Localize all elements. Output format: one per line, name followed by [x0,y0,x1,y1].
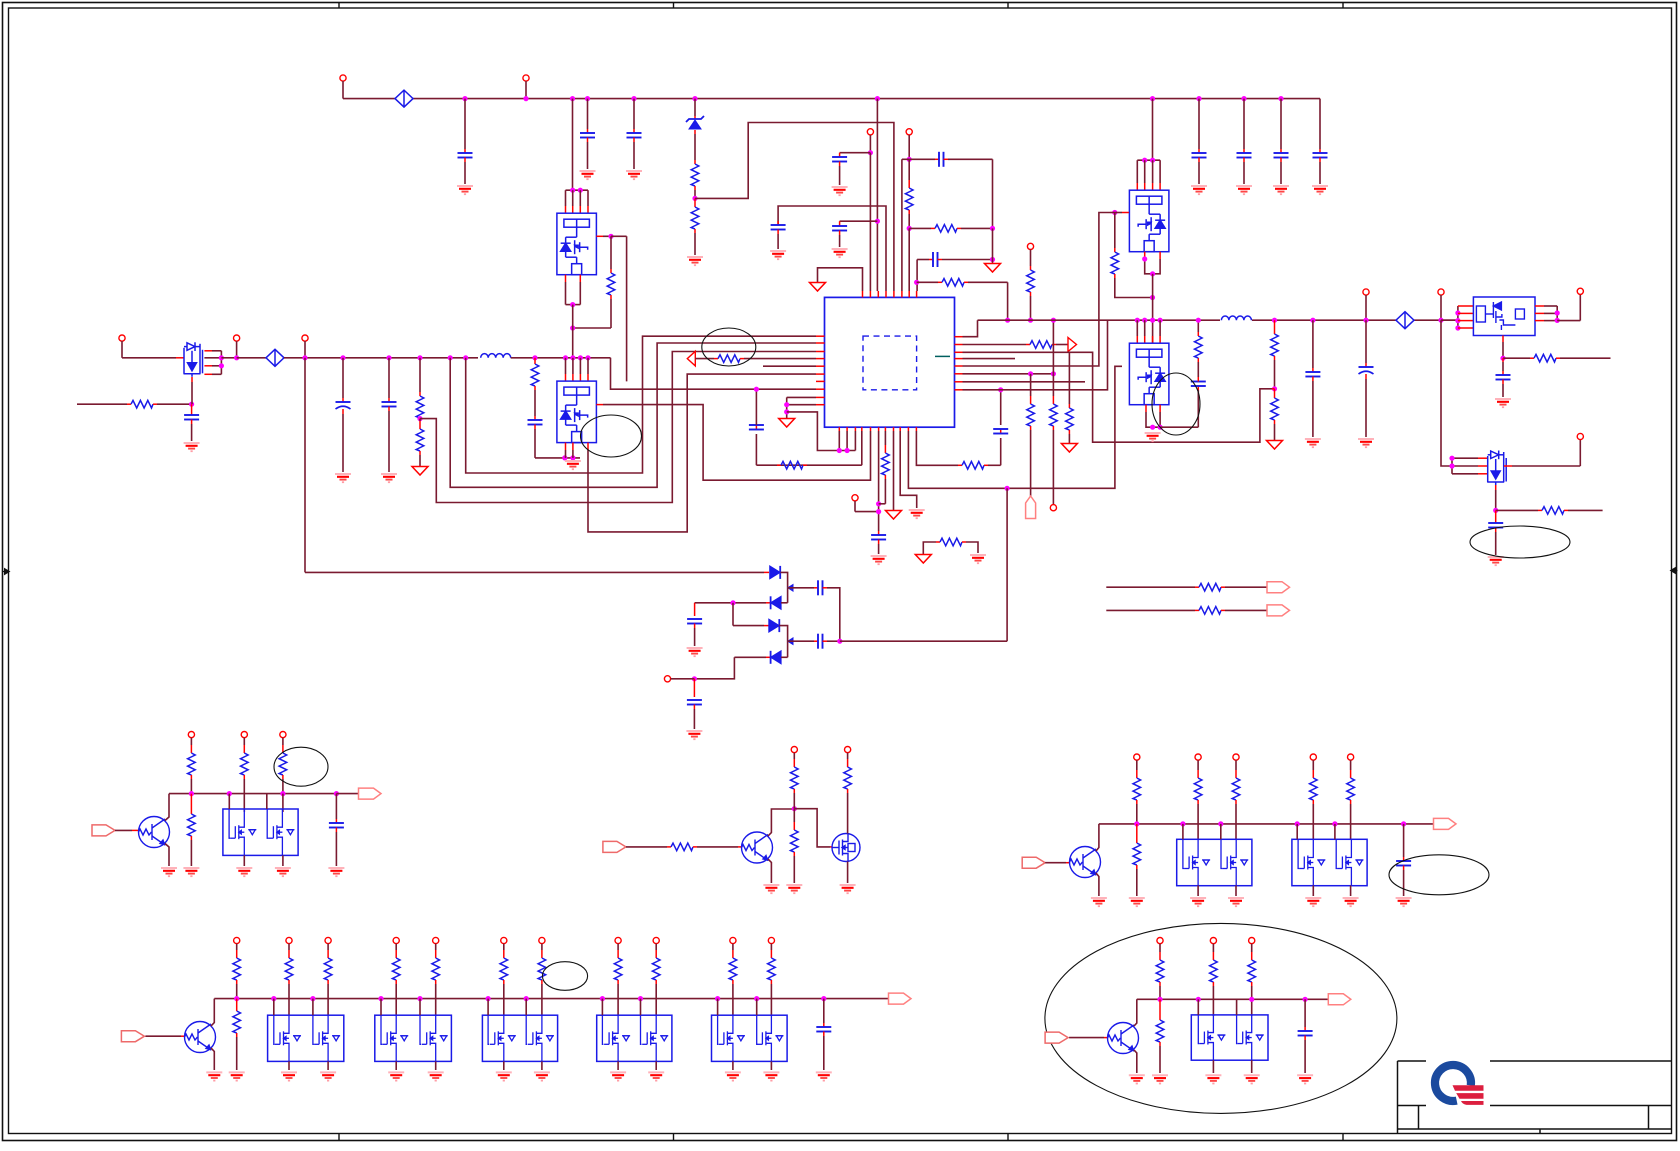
ellipse annotation E1 [702,328,756,366]
res column x=656.2 [653,937,659,943]
capacitor C29 [788,640,814,642]
port tag output A [336,793,358,795]
capacitor C at x=587.5 [585,96,590,101]
column R32 [845,747,851,753]
no-connect J2 [523,75,529,81]
ground [970,554,986,556]
capacitor C27 [788,587,814,589]
ellipse annotation E2 [581,415,642,457]
ground [1244,1074,1260,1076]
capacitor C14 [1313,152,1328,154]
ground [687,256,703,258]
Q-M2 source pins + ground [1145,405,1147,412]
capacitor C16 [386,355,391,360]
ground [1061,444,1077,453]
wire bus to Q-UL [570,96,575,101]
wire divider tap to IC pin [695,123,894,292]
ground [275,867,291,869]
capacitor C25 [1496,374,1511,376]
no-connect J4 + RC to IC [906,129,912,135]
ground [725,1071,741,1073]
resistor R15 [884,431,886,445]
resistor R19 col [1068,352,1070,404]
Q-LL pad pin to phase sense [587,443,589,450]
no-connect J6 [119,335,125,341]
net stub (teal) [935,355,950,357]
ground [580,170,596,172]
ground [335,473,351,475]
ground [1205,1074,1221,1076]
ground [915,555,931,564]
Q-LL gate wire [596,404,603,406]
resistor R25 [1534,354,1556,362]
capacitor C10 [932,252,934,267]
wire input rail [122,357,176,359]
transistor Q-M2 (PowerPAK MOSFET) [1129,343,1169,405]
wire collector bus A [165,794,169,821]
wire stair3 to IC pin row 351.5 [420,352,816,503]
Q-M3 right bracket + output [1535,305,1544,307]
capacitor C8 [778,206,886,291]
wire row 366 to Q-M1 gate [963,213,1111,367]
transistor pack Q-C2 (dual MOSFET) [1177,839,1252,885]
capacitor C at x=634 [631,96,636,101]
ground [496,1071,512,1073]
Q-M1 source pins [1144,252,1146,259]
ground [320,1071,336,1073]
ground [534,1071,550,1073]
inductor L2 [1221,316,1251,320]
ground [686,730,702,732]
res column x=328.1 [325,937,331,943]
node zener divider tap [692,196,697,201]
wire rows 397/405 to ground triangle [787,396,816,398]
diode D1 [764,571,769,573]
resistor R-M1g [1111,252,1119,274]
capacitor C9 [938,152,940,167]
no-connect J15 [664,676,670,682]
ground [381,473,397,475]
no-connect J1 [340,75,346,81]
no-connect J14 [1577,433,1583,439]
wire row 389.8 to rail corner [963,320,1108,390]
company logo [1426,1057,1490,1110]
capacitor C33 [821,996,826,1001]
resistor R36 + capacitor C35 at Q-IN source [77,403,127,405]
Q-M4 source R26 [1495,485,1497,490]
resistor R17 [962,462,984,470]
ground [428,1071,444,1073]
resistor R30 [671,843,693,851]
ground [1396,897,1412,899]
ground [909,509,925,511]
ground [648,1071,664,1073]
wire bus to Q-M1 [1150,96,1155,101]
ground [1305,438,1321,440]
resistor R9 [1027,270,1035,292]
ellipse annotation E3 [1152,373,1200,435]
ground [770,250,786,252]
port tag input A [92,825,115,836]
ground [871,555,887,557]
RC loop pin 916 [916,431,958,465]
resistor R21 [1050,404,1058,426]
no-connect J3 + capacitor C7 [867,129,873,135]
wire rail jog into IC FB pin row 389.2 [611,358,817,389]
ground [626,170,642,172]
capacitor C30 + ground [693,679,695,697]
ground [763,1071,779,1073]
resistor R upper of divider [691,164,699,186]
ellipse annotation E7 [1389,855,1489,895]
res column x=618.1 [615,937,621,943]
Q-LL top pins [563,355,568,360]
snubber R12 + C17 [532,355,537,360]
wire J8 column down to diode row [304,358,306,573]
ground [183,867,199,869]
wire row 352.3 long loop to divider [963,352,1273,442]
ground [1358,438,1374,440]
transistor Q-A (digital NPN) [139,817,170,848]
resistor R lower of divider [691,207,699,229]
ground [565,460,581,462]
transistor pack Q-E1 (dual MOSFET) [268,1015,344,1061]
ground [1191,185,1207,187]
diode D4 [734,656,766,658]
ground triangle near IC top-left [818,268,863,291]
resistor R24 [1271,398,1279,420]
resistor R23 [1271,334,1279,356]
stub row 381.8 [963,381,1086,383]
Q-M1 gate parts [1122,212,1129,214]
column R31 [791,747,797,753]
ground [1236,185,1252,187]
wire to FET gate B [794,809,830,847]
ground [610,1071,626,1073]
column R33 [1134,754,1140,760]
transistor Q-B2 N-FET [832,834,860,862]
zener diode D5 [692,96,697,101]
capacitor C1 [462,96,467,101]
res columns D [1210,938,1216,944]
sources to ground A [243,855,245,866]
wire rail to Q-M4 [1441,320,1452,466]
capacitor C26 [1488,522,1503,524]
divider R23/R24 [1272,318,1277,323]
ground [810,283,826,292]
ground [816,1071,832,1073]
resistor R20 [1027,404,1035,426]
transistor Q-LL (PowerPAK MOSFET) [557,381,597,443]
ground [1312,185,1328,187]
ellipse annotation E6 [542,962,587,991]
port tag input E [121,1031,144,1042]
net stub row 366 [763,365,816,367]
ellipse annotation E8 [1045,923,1397,1113]
ground [1267,441,1283,450]
ground [832,248,848,250]
transistor Q-UL (PowerPAK MOSFET) [557,213,597,275]
resistor R16 between grounds [923,542,936,554]
wire row 336.7 up to rail [963,320,978,337]
column R29 in ellipse [280,732,286,738]
Q-M4 drain out [1504,465,1512,467]
resistor R18 to arrow port [963,344,1027,346]
transistor Q-M4 P-FET [1487,451,1506,486]
ground [457,185,473,187]
ground under pin 893 [893,431,895,510]
resistor + port row y=610.4 [1106,609,1195,611]
ground [1129,897,1145,899]
ferrite FB1 [395,90,413,107]
ground [328,867,344,869]
capacitor C32 [1401,821,1406,826]
transistor Q-D (digital NPN) [1108,1023,1139,1054]
snubber R22+C21 [1160,426,1198,428]
port tag input D [1045,1032,1068,1043]
NC J9 + cap C19 column under IC [852,495,858,501]
ground [985,264,1001,273]
wire stair2 to IC pin row 343 [448,355,453,360]
ferrite FB2 [266,349,284,366]
ground under pin 900 [900,431,917,508]
capacitor C6 [840,220,878,222]
ground [1145,432,1161,434]
port tag input C [1022,857,1045,868]
port tag up [1026,496,1036,519]
title block [1397,1061,1399,1134]
caps on bus right C11-C14 [1196,96,1201,101]
port tag input B [603,841,626,852]
capacitor C28 + ground [694,603,696,616]
port arrow FB input [687,351,695,366]
res column x=732.9 [730,937,736,943]
no-connect J10 [1050,505,1056,511]
wire top input bus [343,98,395,100]
resistor R8 [942,279,964,287]
transistor pack Q-C3 (dual MOSFET) [1292,839,1367,885]
U1 pin stubs [862,291,864,297]
resistor R8 loop [914,280,919,285]
ground [840,884,856,886]
no-connect J13 [1577,288,1583,294]
transistor Q-M1 (PowerPAK MOSFET) [1129,190,1169,252]
ground [832,186,848,188]
resistor + port row y=587.2 [1106,586,1195,588]
ground [281,1071,297,1073]
ground [1495,398,1511,400]
transistor pack Q-D2 (dual MOSFET) [1191,1015,1268,1060]
wire bus to IC VIN pin [875,96,880,101]
resistor R22 [1195,336,1203,358]
transistor pack Q-E2 (dual MOSFET) [375,1015,452,1061]
no-connect J5 + resistor R9 [1027,243,1033,249]
capacitor C34 [1303,997,1308,1002]
transistor Q-B (digital NPN) [742,832,773,863]
capacitor C18 + resistor R14 sense loop [861,431,863,465]
transistor Q-E (digital NPN) [185,1022,216,1053]
diode D3 [732,603,734,626]
ground [786,884,802,886]
resistor R7 [935,225,957,233]
transistor pack Q-A2 (dual MOSFET) [223,809,298,855]
transistor Q-IN P-FET [184,342,203,377]
transistor pack Q-E5 (dual MOSFET) [712,1015,788,1061]
ground [388,1071,404,1073]
res column x=503.8 [501,937,507,943]
ground [687,647,703,649]
ellipse annotation E4 [1470,526,1570,558]
right border mid arrow [1672,570,1678,572]
no-connect J12 [1438,289,1444,295]
left border mid arrow [3,571,9,573]
ground [1152,1074,1168,1076]
ground [229,1071,245,1073]
wire switch rail right [978,319,1221,321]
resistor divider R10/R11 [417,355,422,360]
ground [1091,897,1107,899]
ellipse annotation E5 [274,747,328,786]
wire stair1 to IC pin row 336.2 [463,355,468,360]
ground [236,867,252,869]
ground [1343,897,1359,899]
capacitor C20 [993,428,1008,430]
resistor R26 [1542,507,1564,515]
wire M2-gate row from pin 908 [908,366,1122,488]
ground [206,1071,222,1073]
resistor R13 [718,355,740,363]
Q-M3 source R25 [1502,336,1504,343]
res column x=435.7 [433,937,439,943]
column R27 [188,732,194,738]
wire to Q-M3 left bracket [1441,319,1458,321]
transistor pack Q-E3 (dual MOSFET) [482,1015,557,1061]
ground [1228,897,1244,899]
column R34 [234,937,240,943]
res columns above cells C [1195,754,1201,760]
transistor Q-M3 (SO-8 MOSFET) [1473,297,1535,336]
res column x=541.9 [539,937,545,943]
op-amp U1 main controller IC [825,297,955,427]
port tag output C [1434,818,1457,829]
port tag output E [889,993,912,1004]
no-connect J7 [234,335,240,341]
Q-IN gate bracket [204,350,212,352]
res column x=396.2 [393,937,399,943]
ground [1305,897,1321,899]
port tag [1267,605,1290,616]
Q-UL source pins [565,275,567,282]
ground [1129,1074,1145,1076]
res column x=289 [286,937,292,943]
capacitor C22 [1310,318,1315,323]
ferrite FB3 [1396,312,1414,329]
capacitor C15 (polarized) [340,355,345,360]
port arrow out [1068,338,1077,352]
port tag [1267,582,1290,593]
inductor L1 [481,354,511,358]
transistor pack Q-E4 (dual MOSFET) [597,1015,672,1061]
ground [779,419,795,428]
resistor R6 [905,188,913,210]
capacitor C31 [334,791,339,796]
port tag output D [1328,994,1351,1005]
ground [763,884,779,886]
ground [1190,897,1206,899]
Q-M2 top pins [1135,318,1140,323]
ground [886,511,902,520]
Q-LL source pins [565,443,567,450]
diode D2 [695,602,766,604]
res column x=771.4 [768,937,774,943]
row 373.8 with two columns [963,373,1054,375]
stub row 358.6 [963,358,1016,360]
column R35 [1157,938,1163,944]
ground [1488,556,1504,558]
ground [1273,185,1289,187]
transistor Q-C (digital NPN) [1070,847,1101,878]
no-connect J11 [1363,289,1369,295]
resistor R-ULg [610,236,612,269]
no-connect J8 [302,335,308,341]
column R28 [241,732,247,738]
ground [1297,1074,1313,1076]
ground [412,467,428,476]
Q-UL gate network [596,235,603,237]
ground [184,442,200,444]
ground [161,867,177,869]
capacitor C10 loop [916,260,918,292]
